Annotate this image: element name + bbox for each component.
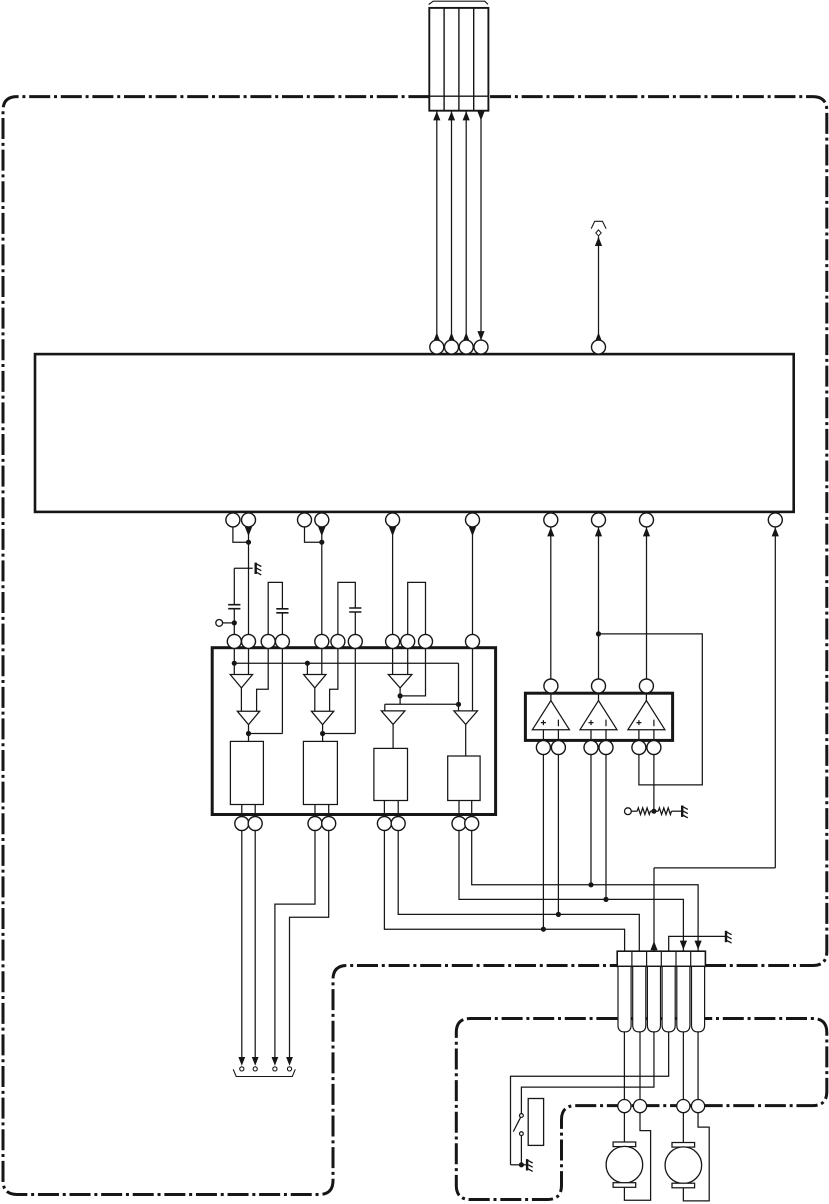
connector CN2 pin sleeve 2 [633,966,646,1032]
capacitor C1 plates [228,605,240,609]
junction A1 [246,540,251,545]
wire IC1 to IC3 in2 [598,527,600,679]
wire to ground G1 [234,567,252,569]
arrowheads up at CN1 [433,111,470,120]
wire hat to IC1 [598,237,600,341]
IC2 bottom pin circles [235,817,479,831]
main board outline (dash-dot, left/bottom L-shape) [3,97,618,1195]
wire IC1 pin B1 L-drop [305,527,322,542]
wire CN1 pin3 to IC1 [465,111,467,340]
ch2 step feedback wire [330,648,338,711]
ch4 input wire [472,648,474,711]
arrowhead down below CN1 pin4 [477,111,484,120]
wire CN2 pin3 to switch [521,1032,654,1114]
ch2 interstage wire [314,688,316,711]
hat diamond node [596,230,601,236]
wire IC1 to IC3 in3 [646,527,648,679]
junction ch3 apex [398,693,403,698]
ch3-ch4 link wire [385,704,459,711]
wire IC3 out4 down [605,755,607,900]
wire to ground G4 [511,1164,527,1166]
IC2 internal bus wire [234,662,458,664]
wire IC3 out1 down [542,755,544,930]
driver stage rect ch2 [303,741,337,804]
ch2 output node wire [323,648,356,741]
wire node to R2 [650,810,658,812]
capacitor C3 bridge loop [338,582,355,634]
ch3 apex wire [399,688,401,704]
main board outline (dash-dot, right/top part) [489,97,827,966]
capacitor C2 bridge loop [268,582,282,634]
junction out1 [541,927,546,932]
wire IC2 out ch1a to CN3 [241,831,243,1062]
bus junction ch2 [305,661,310,666]
ch2 input wires [307,648,321,674]
comparator U2 [580,693,617,740]
amp ch2 stage2 [311,711,333,725]
motor M2 bottom tab [672,1183,695,1188]
ground G1 [256,563,262,575]
wire CN1 pin2 to IC1 [451,111,453,340]
ch3 input wires [393,648,408,674]
IC2 top pin circles [227,634,479,648]
capacitor C2 plates [276,609,288,613]
bridge loop group3 [408,582,426,634]
junction C1-TP1 [232,620,237,625]
wire CN1 pin4 to IC1 [480,111,482,340]
wire TP2 to R1 [631,810,637,812]
amp ch1 stage1 [230,675,252,688]
ch1 output node wire [249,648,283,741]
ch1 interstage wire [240,688,242,711]
wire CN2 pin6 to motor pin [697,1032,699,1100]
wire IC1 to IC3 in1 [550,527,552,679]
connector CN2 pin sleeve 5 [677,966,690,1032]
ground G2 [682,806,688,818]
motor M1 wiring [624,1113,650,1201]
junction out3 [588,882,593,887]
wire IC1 pin A2 down to IC2 [248,527,250,635]
amp ch2 stage1 [304,675,326,688]
connector CN2 pin sleeve 1 [618,966,631,1032]
wire IC1 pin C down to IC2 [392,527,394,635]
IC2 driver block [212,648,495,815]
motor pin circles on boundary [618,1100,705,1113]
junction ch2 out [320,731,325,736]
connector CN3 bracket [233,1069,295,1076]
actuator rect [528,1099,543,1146]
wire CN2 pin4 to ground branch [511,1032,669,1165]
test point TP1 [216,620,223,627]
wire TP1 [223,622,235,624]
capacitor C3 plates [349,608,361,612]
junction B1 [319,540,324,545]
ground G4 [527,1159,533,1171]
driver stage rect ch4 [448,756,480,801]
wire ground to CN2 pin4 [669,936,726,951]
IC3 top pin circles [544,679,654,693]
wire CN2 pin2 to motor pin [639,1032,641,1100]
IC2 output stub wires [242,801,472,817]
wire IC2 out ch3b to CN2 pin2 [398,831,639,952]
connector CN1 cell dividers [429,8,488,111]
amp ch3 stage2 [381,711,405,725]
junction out4 [603,897,608,902]
ch4 output wire [465,724,467,756]
arrowhead down at IC1 top pin4 [477,331,484,340]
capacitor C1 branch [233,568,235,634]
IC3 bottom pin circles [536,741,661,755]
feedback loop wire IC3 [599,634,703,785]
wire IC2 out ch1b to CN3 [254,831,256,1062]
arrowheads up into IC1 right pins [547,527,779,536]
driver stage rect ch1 [230,741,263,804]
motor M1 body [606,1146,643,1183]
ch3 feedback wire from pin [400,648,425,696]
driver stage rect ch3 [374,748,408,800]
comparator U1 [532,693,569,740]
motor M1 top tab [613,1142,636,1147]
arrowheads down on CN2 pin5/6 wires [680,941,702,950]
connector CN3 pin circles [240,1067,292,1071]
resistor R1 [637,808,650,815]
ch1 input wires [234,648,248,674]
wire IC2 out ch4a to CN2 pin5 [459,831,683,952]
bus drop wire to ch4 [458,663,460,711]
wire IC2 out ch2b to CN3 [290,831,329,1062]
wire IC3 pin to resistor node [653,755,655,812]
junction ch1 out [246,731,251,736]
wire IC1 pin D down to IC2 [472,527,474,635]
resistor R2 [658,808,671,815]
connector CN2 cell dividers [632,951,691,966]
wire IC1 right pin down [774,527,776,868]
wire R2 to ground G2 [672,810,682,812]
wire CN2 pin5 to motor pin [682,1032,684,1100]
IC3 comparator block [525,693,672,740]
ground G3 [726,931,732,943]
amp ch4 [454,711,478,725]
comparator U3 [628,693,665,740]
motor M1 bottom tab [613,1183,636,1188]
amp ch3 stage1 [388,675,412,688]
wire IC1 pin A1 L-drop [233,527,249,542]
IC1 main block [35,354,794,512]
connector CN2 body [617,951,705,966]
ch3 output wire [392,724,394,748]
wire IC2 out ch3a to CN2 pin1 [384,831,624,952]
motor M2 wiring [683,1113,709,1201]
switch S1 [513,1114,523,1165]
junction switch-ground [519,1162,524,1167]
ch1 step feedback wire [257,648,269,711]
arrowhead up on CN2 pin3 wire [650,941,657,950]
connector CN2 pin sleeve 3 [647,966,660,1032]
junction out2 [556,912,561,917]
test point TP2 [625,808,632,815]
IC1 bottom pin circles [226,513,782,527]
junction R1-R2 [651,809,656,814]
wire IC1 right pin to CN2 pin3 [654,868,775,951]
motor M2 body [665,1147,702,1184]
antenna-hat symbol [591,221,606,228]
connector CN1 body [429,8,488,111]
connector CN1 brace [429,1,488,4]
wire IC1 pin B2 down to IC2 [321,527,323,635]
arrowheads down below IC1 pins [245,527,476,536]
wire IC2 out ch2a to CN3 [275,831,315,1062]
amp ch1 stage2 [237,711,259,725]
arrowhead up above IC1 right pin [595,332,602,341]
wire IC3 out3 down [590,755,592,885]
connector CN2 pin sleeve 4 [662,966,675,1032]
wire IC2 out ch4b to CN2 pin6 [472,831,698,952]
motor M2 top tab [672,1143,695,1148]
junction on in2 wire [596,631,601,636]
arrowheads up above IC1 top pins [433,332,470,341]
motor board outline (dash-dot closed ring with stepped bottom) [456,1019,827,1200]
bus junction ch1 [232,661,237,666]
wire CN2 pin1 to motor pin [623,1032,625,1100]
junction bus-link [456,702,461,707]
arrowheads down at CN3 [238,1057,292,1066]
wire CN1 pin1 to IC1 [436,111,438,340]
wire IC3 out2 down [557,755,559,915]
IC1 top pin circles [430,340,606,354]
connector CN2 pin sleeve 6 [692,966,705,1032]
arrowhead up below hat [595,237,602,246]
